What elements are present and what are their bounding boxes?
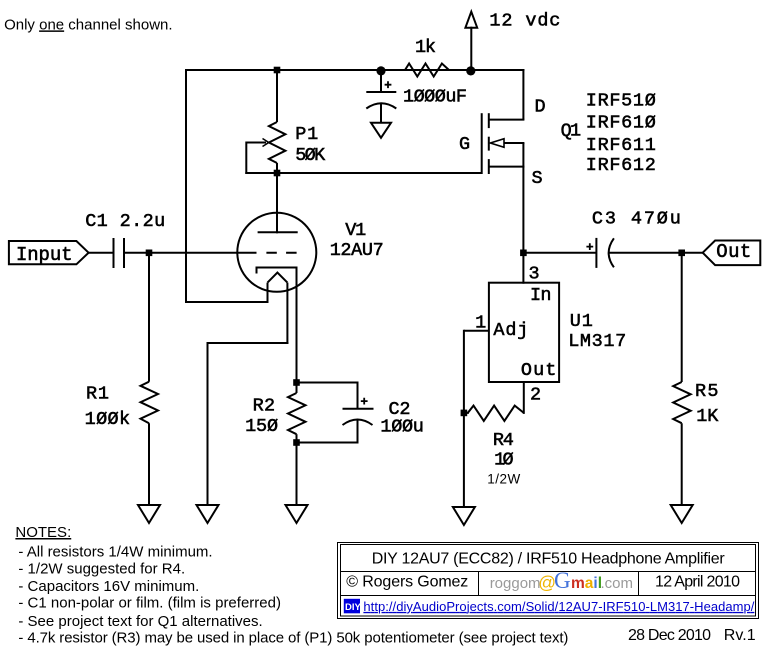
- svg-text:.com: .com: [601, 575, 634, 592]
- wire C2 bottom to R2 bottom: [296, 442, 359, 444]
- svg-text:- 4.7k resistor (R3) may be us: - 4.7k resistor (R3) may be used in plac…: [18, 630, 568, 647]
- title block inner border: [341, 545, 756, 617]
- wire R5 bottom: [681, 423, 683, 505]
- wire P1 wiper to bottom node: [245, 172, 278, 174]
- svg-text:IRF612: IRF612: [586, 155, 656, 176]
- capacitor 1000uF plus sign: [385, 81, 392, 88]
- junction R4 left: [461, 410, 468, 417]
- svg-text:roggom: roggom: [490, 575, 541, 592]
- junction R2 bottom: [293, 439, 300, 446]
- wire C3 to out node: [608, 252, 703, 254]
- title block outer border: [338, 543, 759, 619]
- junction out node: [678, 250, 685, 257]
- svg-text:1k: 1k: [415, 37, 436, 58]
- wire R2 bottom to ground: [296, 443, 298, 506]
- wire R4 node down to ground: [463, 413, 465, 507]
- title block divider row2: [340, 595, 756, 597]
- svg-text:12AU7: 12AU7: [330, 240, 384, 261]
- svg-text:1ØØk: 1ØØk: [85, 409, 131, 430]
- wire heater to ground horizontal: [207, 342, 289, 344]
- MOSFET Q1 body lead: [504, 142, 524, 144]
- wire cathode down to R2: [296, 268, 298, 384]
- svg-text:- 1/2W suggested for R4.: - 1/2W suggested for R4.: [18, 560, 185, 577]
- svg-text:1ØØu: 1ØØu: [380, 417, 424, 438]
- svg-text:Input: Input: [16, 244, 73, 266]
- svg-text:DIY 12AU7 (ECC82) / IRF510 Hea: DIY 12AU7 (ECC82) / IRF510 Headphone Amp…: [372, 551, 726, 568]
- wire gate from P1 node: [277, 172, 482, 174]
- svg-text:Q1: Q1: [561, 120, 582, 141]
- capacitor C1 left plate: [113, 238, 115, 268]
- resistor R2 zigzag: [288, 393, 306, 434]
- MOSFET Q1 source lead: [489, 166, 525, 168]
- wire left feedback vertical: [185, 69, 187, 303]
- ground heater: [197, 505, 219, 523]
- 12vdc arrow: [465, 12, 477, 28]
- svg-text:- C1 non-polar or film. (film: - C1 non-polar or film. (film is preferr…: [18, 595, 281, 612]
- gmail logo text: [490, 568, 633, 593]
- capacitor C2 bottom lead: [357, 419, 359, 444]
- wire P1 wiper down: [245, 142, 247, 175]
- svg-text:- See project text for Q1 alte: - See project text for Q1 alternatives.: [18, 613, 262, 630]
- wire C1 to grid: [124, 252, 257, 254]
- svg-text:IRF51Ø: IRF51Ø: [586, 90, 656, 111]
- svg-text:12 vdc: 12 vdc: [489, 10, 560, 31]
- svg-text:R5: R5: [695, 381, 719, 402]
- svg-text:1K: 1K: [696, 406, 719, 427]
- svg-text:G: G: [554, 568, 571, 593]
- capacitor C3 plus sign: [586, 243, 593, 250]
- svg-text:IRF61Ø: IRF61Ø: [586, 113, 656, 134]
- resistor 1k leads: [380, 69, 405, 71]
- svg-text:IRF611: IRF611: [586, 135, 656, 156]
- resistor 1k zigzag: [405, 64, 449, 77]
- svg-text:1: 1: [475, 313, 486, 334]
- out flag: [703, 241, 761, 266]
- wire top rail: [185, 69, 524, 71]
- junction 1000uF node: [376, 66, 385, 75]
- svg-text:- All resistors 1/4W minimum.: - All resistors 1/4W minimum.: [18, 544, 212, 561]
- capacitor C3 plus plate: [595, 238, 597, 268]
- svg-text:2: 2: [530, 384, 541, 405]
- svg-text:© Rogers Gomez: © Rogers Gomez: [346, 573, 468, 590]
- MOSFET Q1 drain vertical: [522, 69, 524, 120]
- svg-text:G: G: [459, 134, 470, 155]
- svg-text:NOTES:: NOTES:: [15, 524, 71, 541]
- resistor R2 bottom lead: [296, 434, 298, 443]
- capacitor C2 curved plate: [343, 420, 373, 426]
- svg-text:C1 2.2u: C1 2.2u: [85, 211, 165, 232]
- title block divider row1: [340, 571, 756, 573]
- svg-text:R4: R4: [493, 430, 514, 451]
- junction 12vdc node: [466, 66, 475, 75]
- svg-text:R1: R1: [86, 383, 109, 404]
- svg-text:DIY: DIY: [345, 602, 362, 613]
- MOSFET Q1 body arrow: [490, 139, 504, 148]
- ground R2: [286, 505, 308, 523]
- capacitor 1000uF lead: [380, 70, 382, 92]
- svg-text:1Ø: 1Ø: [494, 450, 513, 471]
- svg-text:15Ø: 15Ø: [245, 416, 278, 437]
- svg-text:Out: Out: [521, 360, 557, 381]
- P1 wiper arrowhead: [263, 139, 269, 147]
- wire P1 bottom to plate lead: [276, 163, 278, 233]
- svg-text:C3 47Øu: C3 47Øu: [592, 209, 681, 230]
- wire C3 node right: [522, 252, 596, 254]
- svg-text:1/2W: 1/2W: [487, 472, 520, 487]
- MOSFET Q1 channel bar top: [488, 113, 490, 128]
- wire Adj down: [463, 330, 465, 414]
- wire LM317 Adj lead: [464, 330, 489, 332]
- wire P1 top lead: [276, 69, 278, 122]
- resistor R4 left lead: [463, 412, 469, 414]
- resistor R2 leads: [296, 383, 298, 394]
- svg-text:Only one channel shown.: Only one channel shown.: [4, 16, 172, 33]
- junction C1 R1 node: [146, 250, 153, 257]
- wire C3 node to LM317 In: [522, 253, 524, 284]
- svg-text:V1: V1: [345, 220, 366, 241]
- svg-text:1ØØØuF: 1ØØØuF: [403, 87, 467, 108]
- tube V1 cathode line: [257, 268, 298, 274]
- capacitor C1 right plate: [123, 238, 125, 268]
- svg-text:D: D: [535, 97, 546, 118]
- junction P1 top: [274, 67, 281, 74]
- svg-text:Out: Out: [716, 241, 751, 263]
- svg-text:P1: P1: [295, 124, 318, 145]
- svg-text:mail: mail: [571, 575, 602, 592]
- svg-text:Rv.1: Rv.1: [724, 627, 756, 644]
- svg-text:S: S: [532, 168, 543, 189]
- resistor R1 zigzag: [141, 382, 159, 424]
- ground 1000uF: [371, 123, 391, 138]
- MOSFET Q1 channel bar middle: [488, 137, 490, 151]
- ground R1: [138, 505, 160, 523]
- svg-text:Adj: Adj: [493, 320, 528, 341]
- wire R2 top to C2: [296, 383, 358, 409]
- wire input to C1: [89, 252, 114, 254]
- svg-text:28 Dec 2010: 28 Dec 2010: [628, 627, 711, 644]
- svg-text:http://diyAudioProjects.com/So: http://diyAudioProjects.com/Solid/12AU7-…: [363, 599, 754, 614]
- wire R5 vertical top: [681, 253, 683, 382]
- svg-text:5ØK: 5ØK: [295, 145, 326, 166]
- svg-text:R2: R2: [253, 396, 276, 417]
- wire heater right leg: [286, 283, 288, 344]
- title block cell divider 1: [478, 571, 480, 595]
- input flag: [9, 241, 89, 264]
- svg-text:- Capacitors 16V minimum.: - Capacitors 16V minimum.: [18, 578, 199, 595]
- LM317 U1 box: [489, 283, 559, 382]
- DIY badge: [344, 599, 755, 614]
- wire heater left leg: [267, 283, 269, 303]
- capacitor 1000uF curved plate: [366, 103, 396, 108]
- svg-text:LM317: LM317: [568, 331, 626, 352]
- title block cell divider 2: [638, 571, 640, 595]
- MOSFET Q1 channel bar bottom: [488, 159, 490, 174]
- junction C3 node: [520, 250, 527, 257]
- svg-text:3: 3: [529, 264, 540, 285]
- MOSFET Q1 drain lead: [489, 119, 525, 121]
- capacitor C3 curved plate: [609, 238, 614, 267]
- wire LM317 Out pin down: [523, 382, 525, 414]
- tube V1 grid dashes: [266, 252, 296, 254]
- potentiometer P1 zigzag: [269, 122, 286, 163]
- ground R5: [671, 505, 693, 523]
- ground R4: [453, 507, 475, 525]
- wire R1 bottom: [148, 423, 150, 505]
- tube V1 plate line: [258, 231, 298, 233]
- junction P1 bottom: [274, 170, 281, 177]
- capacitor C2 plus plate: [343, 408, 374, 410]
- wire source down to C3 node: [522, 143, 524, 254]
- svg-text:U1: U1: [570, 311, 593, 332]
- svg-text:In: In: [530, 285, 552, 306]
- junction R2 top: [293, 379, 300, 386]
- 12vdc stem: [470, 27, 472, 71]
- wire heater ground vertical: [207, 343, 209, 505]
- wire heater left horizontal: [185, 301, 269, 303]
- tube V1 heater caret: [268, 273, 288, 283]
- MOSFET Q1 gate bar: [481, 113, 483, 174]
- resistor R4 zigzag: [468, 406, 524, 421]
- P1 wiper arrow: [246, 142, 266, 144]
- wire R1 vertical top: [148, 253, 150, 382]
- capacitor C2 plus sign: [361, 398, 368, 405]
- svg-text:12 April 2010: 12 April 2010: [655, 574, 740, 591]
- resistor R5 zigzag: [673, 382, 691, 423]
- tube V1 envelope circle: [237, 213, 316, 292]
- capacitor 1000uF plus plate: [366, 91, 396, 93]
- capacitor 1000uF bottom lead: [380, 103, 382, 123]
